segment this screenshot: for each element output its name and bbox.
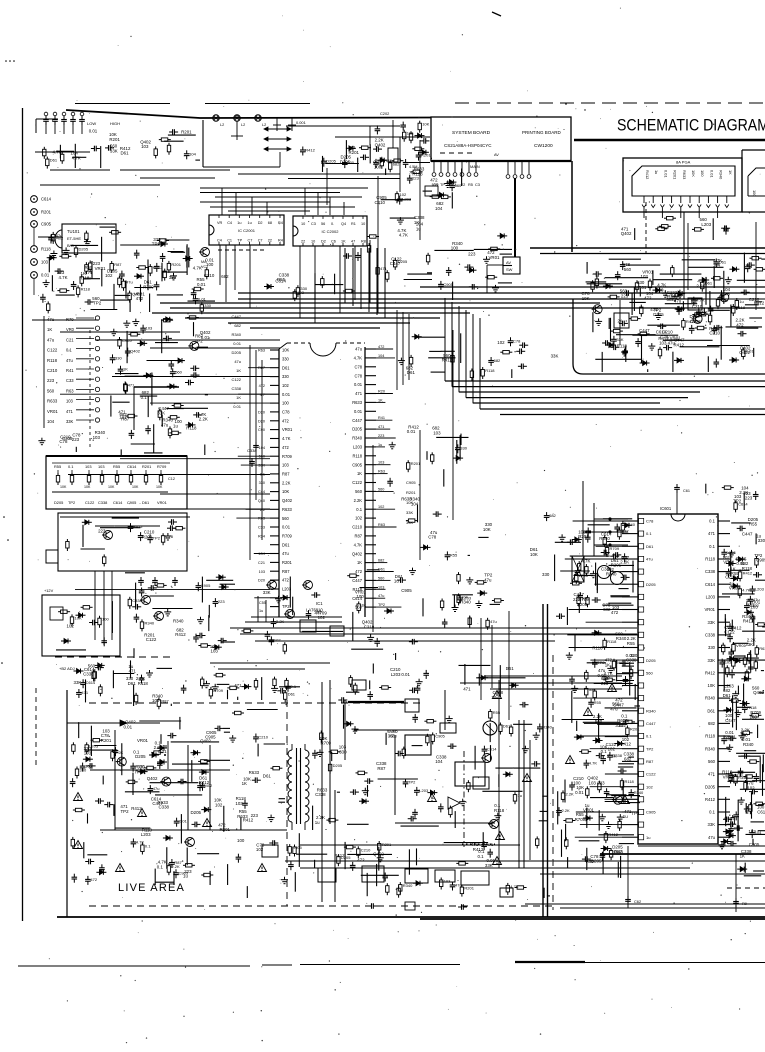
svg-text:330: 330 [204,303,211,308]
svg-text:C1: C1 [227,239,232,243]
svg-text:L203: L203 [353,445,363,450]
svg-text:VR01: VR01 [635,285,647,290]
svg-text:223: 223 [47,378,55,383]
svg-text:C21: C21 [258,561,265,565]
svg-text:TP2: TP2 [733,499,742,504]
svg-text:R55: R55 [450,552,458,557]
svg-text:560: 560 [378,576,384,580]
svg-text:2.2K: 2.2K [620,560,629,565]
svg-text:C78: C78 [282,410,290,415]
svg-text:R201: R201 [181,130,192,135]
svg-text:D61: D61 [263,773,272,778]
svg-text:4.7K: 4.7K [282,436,291,441]
svg-text:R4: R4 [278,221,283,225]
svg-text:472: 472 [282,578,290,583]
svg-text:102: 102 [282,383,290,388]
svg-text:R709: R709 [282,534,293,539]
svg-text:R340: R340 [625,522,635,527]
svg-text:104: 104 [189,151,196,156]
svg-text:4.7K: 4.7K [742,587,751,592]
svg-text:C78: C78 [101,733,110,738]
svg-text:560: 560 [708,759,716,764]
svg-text:100: 100 [573,781,581,786]
svg-text:C6: C6 [331,240,336,244]
svg-text:4.7K: 4.7K [399,233,408,238]
svg-text:22: 22 [268,239,272,243]
svg-text:47u: 47u [234,359,241,364]
svg-text:L2: L2 [262,123,266,127]
svg-text:C614: C614 [275,278,286,283]
svg-text:103: 103 [235,801,243,806]
svg-text:102: 102 [67,623,75,628]
svg-text:VR01: VR01 [723,560,735,565]
svg-text:C338: C338 [159,805,170,810]
svg-text:103: 103 [85,464,92,469]
svg-text:C614: C614 [127,464,137,469]
svg-text:C78: C78 [354,373,362,378]
svg-text:103: 103 [211,649,219,654]
svg-text:47: 47 [351,240,355,244]
svg-text:R63: R63 [378,523,385,527]
svg-text:10K: 10K [582,296,590,301]
svg-text:1K: 1K [47,327,52,332]
svg-text:R87: R87 [354,534,362,539]
svg-text:R87: R87 [646,759,654,764]
svg-text:10K: 10K [75,615,82,620]
svg-text:471: 471 [129,669,137,674]
svg-text:LOW: LOW [87,121,96,126]
svg-text:10: 10 [311,240,315,244]
svg-text:1u: 1u [315,820,320,825]
svg-text:R118: R118 [607,639,617,644]
svg-text:330: 330 [708,645,716,650]
svg-text:0.1: 0.1 [356,507,362,512]
svg-text:C905: C905 [205,735,216,740]
svg-text:2.2K: 2.2K [696,283,705,288]
svg-text:R55: R55 [113,464,120,469]
svg-text:10K: 10K [132,485,139,489]
svg-text:47u: 47u [47,337,55,342]
svg-text:D61: D61 [288,691,296,696]
svg-text:330: 330 [542,572,550,577]
svg-text:560: 560 [355,489,363,494]
svg-text:10K: 10K [708,683,716,688]
svg-text:R412: R412 [175,632,186,637]
svg-text:2.2K: 2.2K [354,498,363,503]
svg-text:R201: R201 [464,886,474,891]
svg-text:103: 103 [93,435,101,440]
svg-text:VR: VR [217,221,223,225]
svg-text:D205: D205 [191,810,202,815]
svg-text:R118: R118 [494,808,505,813]
svg-text:0.1: 0.1 [157,864,164,869]
svg-text:102: 102 [378,505,384,509]
svg-text:R87: R87 [377,766,386,771]
svg-text:R340: R340 [599,536,610,541]
svg-text:TP2: TP2 [408,780,416,785]
svg-text:472: 472 [357,858,365,863]
svg-text:33K: 33K [110,149,118,154]
svg-text:R340: R340 [606,572,617,577]
svg-text:10: 10 [361,222,365,226]
svg-text:103: 103 [407,131,414,136]
svg-text:103: 103 [314,609,322,614]
svg-text:C447: C447 [352,578,363,583]
svg-text:R63: R63 [258,517,265,521]
svg-text:47u: 47u [708,835,716,840]
svg-text:103: 103 [297,290,304,295]
svg-text:560: 560 [455,183,462,188]
svg-text:L203: L203 [141,832,151,837]
svg-text:D205: D205 [135,754,146,759]
svg-text:TP2: TP2 [153,535,161,540]
svg-text:0.01: 0.01 [401,672,410,677]
svg-text:Q402: Q402 [375,142,386,147]
svg-text:R340: R340 [705,746,716,751]
svg-text:C33: C33 [66,378,74,383]
svg-text:100: 100 [752,190,757,197]
svg-text:R87: R87 [258,366,265,370]
svg-text:D205: D205 [54,500,63,505]
svg-text:102: 102 [318,615,326,620]
svg-text:1K: 1K [378,398,383,402]
svg-text:C447: C447 [639,328,650,333]
svg-text:C122: C122 [85,500,94,505]
svg-text:LIVE AREA: LIVE AREA [118,882,185,894]
svg-text:560: 560 [47,388,55,393]
svg-text:471: 471 [708,772,716,777]
svg-text:R55: R55 [627,641,636,646]
svg-text:Q402: Q402 [130,349,141,354]
svg-text:223: 223 [72,437,80,442]
svg-text:R41: R41 [378,416,385,420]
svg-text:223: 223 [98,529,106,534]
svg-text:D61: D61 [282,542,290,547]
svg-text:SCHEMATIC DIAGRAM: SCHEMATIC DIAGRAM [617,116,765,135]
svg-text:223: 223 [84,275,91,280]
svg-text:C210: C210 [352,525,363,530]
svg-text:TU101: TU101 [67,229,80,234]
svg-text:C7: C7 [248,239,253,243]
svg-text:10K: 10K [483,527,491,532]
svg-text:C210: C210 [709,331,720,336]
svg-text:C614: C614 [41,197,52,202]
svg-text:1K: 1K [242,781,247,786]
svg-text:D61: D61 [121,151,130,156]
svg-text:1K: 1K [605,663,610,668]
svg-text:IC1: IC1 [316,601,323,606]
svg-text:VR01: VR01 [47,409,58,414]
svg-text:47u: 47u [484,577,492,582]
svg-text:VC2: VC2 [201,265,208,269]
svg-text:IC C2001: IC C2001 [238,228,256,233]
svg-text:R412: R412 [645,170,650,179]
svg-text:D205: D205 [591,859,602,864]
svg-text:330: 330 [282,374,290,379]
svg-text:C55: C55 [259,601,266,605]
svg-text:0.1: 0.1 [145,844,151,849]
svg-text:D61: D61 [407,370,416,375]
svg-text:104: 104 [622,719,630,724]
svg-text:R633: R633 [759,646,765,651]
svg-text:10K: 10K [282,489,290,494]
svg-text:330: 330 [460,445,467,450]
svg-text:R340: R340 [616,636,627,641]
svg-text:C447: C447 [613,702,624,707]
svg-text:C338: C338 [601,567,612,572]
svg-text:R4: R4 [278,239,283,243]
svg-text:0.01: 0.01 [233,404,242,409]
svg-text:C78: C78 [428,535,437,540]
svg-text:2.2K: 2.2K [276,619,285,624]
svg-text:10: 10 [301,222,305,226]
svg-text:330: 330 [115,355,122,360]
svg-text:100: 100 [374,165,382,170]
svg-text:C202: C202 [380,111,389,116]
svg-text:C338: C338 [315,792,326,797]
svg-text:103: 103 [378,461,384,465]
svg-text:0.01: 0.01 [407,429,416,434]
svg-text:0.1: 0.1 [478,854,485,859]
svg-text:C7: C7 [258,239,263,243]
svg-text:10K: 10K [108,485,115,489]
svg-text:C12: C12 [168,477,175,481]
svg-text:471: 471 [708,531,716,536]
svg-text:L203: L203 [701,222,711,227]
svg-text:D61: D61 [142,500,149,505]
svg-text:D61: D61 [646,544,654,549]
svg-text:47u: 47u [650,307,658,312]
svg-text:C78: C78 [513,338,521,343]
svg-text:100: 100 [740,732,748,737]
svg-text:C338: C338 [705,569,716,574]
svg-text:L203: L203 [706,595,716,600]
svg-text:C905: C905 [41,222,52,227]
svg-text:10K: 10K [84,485,91,489]
svg-text:1K: 1K [740,854,745,859]
svg-text:L2: L2 [241,123,245,127]
svg-text:SW: SW [506,267,513,272]
svg-text:0.1: 0.1 [646,734,652,739]
svg-text:47u: 47u [646,557,653,562]
svg-text:100: 100 [700,170,705,177]
svg-text:4.7K: 4.7K [589,761,598,766]
svg-text:C614: C614 [113,500,123,505]
svg-text:100: 100 [102,617,109,622]
svg-text:R87: R87 [174,860,182,865]
svg-text:R340: R340 [719,170,724,180]
svg-text:D205: D205 [705,784,716,789]
svg-text:R118: R118 [736,305,746,310]
svg-text:560: 560 [282,516,290,521]
svg-text:R709: R709 [610,546,620,551]
svg-text:L203: L203 [462,596,472,601]
svg-text:C447: C447 [742,532,753,537]
svg-text:R412: R412 [686,319,696,324]
svg-text:C210: C210 [361,847,371,852]
svg-text:0.01: 0.01 [354,382,363,387]
svg-text:R412: R412 [199,780,210,785]
svg-text:103: 103 [66,399,74,404]
svg-text:1u: 1u [237,221,241,225]
svg-text:10K: 10K [530,552,538,557]
svg-text:4.5M: 4.5M [409,165,417,169]
svg-text:R412: R412 [305,148,315,153]
svg-text:C210: C210 [258,735,268,740]
svg-text:33K: 33K [263,590,271,595]
svg-text:100: 100 [237,838,245,843]
svg-text:33K: 33K [708,620,716,625]
svg-text:33K: 33K [406,510,413,515]
svg-text:47u: 47u [355,347,362,352]
svg-text:1u: 1u [518,793,522,798]
svg-text:R55: R55 [594,700,602,705]
svg-text:D20: D20 [258,410,265,414]
svg-text:471: 471 [66,409,74,414]
svg-text:102: 102 [256,847,264,852]
svg-text:R118: R118 [705,734,715,739]
svg-text:C614: C614 [86,680,96,685]
svg-text:682: 682 [378,559,384,563]
svg-text:R340: R340 [173,619,184,624]
svg-text:103: 103 [98,464,105,469]
svg-text:R340: R340 [403,883,413,888]
svg-text:560: 560 [624,267,632,272]
svg-text:C338: C338 [626,658,637,663]
svg-text:R340: R340 [231,332,241,337]
svg-text:R412: R412 [743,570,753,575]
svg-text:C78: C78 [646,519,654,524]
svg-text:D61: D61 [282,365,290,370]
svg-text:330: 330 [758,538,765,543]
svg-text:R633: R633 [282,507,293,512]
svg-text:C338: C338 [83,672,94,677]
svg-text:R118: R118 [186,426,197,431]
svg-text:33K: 33K [74,680,82,685]
svg-text:+B2 ADJ: +B2 ADJ [59,666,75,671]
svg-text:100: 100 [282,401,290,406]
svg-text:103: 103 [41,260,49,265]
svg-text:R8: R8 [361,240,366,244]
svg-text:R87: R87 [282,569,290,574]
svg-text:R41: R41 [66,368,74,373]
svg-text:Q402: Q402 [352,551,363,556]
svg-text:R633: R633 [47,399,58,404]
svg-text:R412: R412 [705,670,716,675]
svg-text:C122: C122 [231,377,241,382]
svg-text:TP2: TP2 [93,301,102,306]
svg-text:2.2K: 2.2K [566,791,575,796]
svg-text:TP2: TP2 [646,746,654,751]
svg-text:Q40: Q40 [258,499,265,503]
svg-text:R55: R55 [54,464,61,469]
svg-text:560: 560 [378,487,384,491]
svg-text:R201: R201 [630,727,640,732]
svg-text:C905: C905 [127,500,136,505]
svg-text:SYSTEM BOARD: SYSTEM BOARD [452,130,491,136]
svg-text:1K: 1K [728,170,733,175]
svg-text:Q402: Q402 [621,231,632,236]
svg-text:0.01: 0.01 [736,561,745,566]
svg-text:560: 560 [175,369,182,374]
svg-text:R412: R412 [743,619,754,624]
svg-text:223: 223 [468,252,476,257]
svg-text:C447: C447 [231,314,241,319]
svg-text:0.001: 0.001 [296,120,306,125]
svg-text:R118: R118 [353,453,363,458]
svg-text:R34: R34 [258,534,265,538]
svg-text:VR0: VR0 [66,327,75,332]
svg-text:D61: D61 [128,681,137,686]
svg-text:330: 330 [656,287,664,292]
svg-text:103: 103 [141,144,149,149]
svg-text:R20: R20 [378,390,385,394]
svg-text:472: 472 [734,826,741,831]
svg-text:682: 682 [603,607,611,612]
svg-text:10K: 10K [422,122,429,127]
svg-text:D205: D205 [352,427,363,432]
svg-text:330: 330 [339,749,347,754]
svg-text:R633: R633 [237,814,248,819]
svg-text:0.1: 0.1 [646,531,652,536]
svg-text:C210: C210 [204,273,215,278]
svg-text:682: 682 [393,161,400,166]
svg-text:0.1: 0.1 [709,810,715,815]
svg-text:330: 330 [80,768,87,773]
svg-text:1u: 1u [654,170,659,174]
svg-text:R118: R118 [41,247,51,252]
svg-text:D205: D205 [333,763,343,768]
svg-text:47u: 47u [378,594,384,598]
svg-text:103: 103 [146,326,153,331]
svg-text:103: 103 [259,570,265,574]
svg-text:R709: R709 [213,688,223,693]
svg-text:D61: D61 [723,693,732,698]
svg-text:C905: C905 [401,588,412,593]
svg-text:0.01: 0.01 [282,392,291,397]
svg-text:R118: R118 [705,557,715,562]
svg-text:472: 472 [282,445,290,450]
svg-text:56: 56 [321,222,325,226]
svg-text:C44: C44 [258,490,265,494]
svg-text:4.7K: 4.7K [354,356,363,361]
svg-text:R412: R412 [705,797,716,802]
svg-text:47u: 47u [153,786,160,791]
svg-text:R201: R201 [41,210,52,215]
svg-text:R118: R118 [625,779,635,784]
svg-text:47u: 47u [66,358,73,363]
svg-text:C4: C4 [217,239,222,243]
svg-text:MA: MA [201,260,207,264]
svg-text:33K: 33K [66,419,74,424]
svg-text:MAIN: MAIN [470,164,480,169]
svg-text:R201: R201 [282,560,293,565]
svg-text:472: 472 [644,296,652,301]
svg-text:IC C2002: IC C2002 [322,229,340,234]
svg-text:0.1: 0.1 [709,519,715,524]
svg-text:D20: D20 [258,419,265,423]
svg-text:TP2: TP2 [68,500,75,505]
svg-text:1u: 1u [259,609,263,613]
svg-text:102: 102 [400,192,407,197]
svg-text:R340: R340 [145,620,155,625]
svg-text:4.7K: 4.7K [59,275,68,280]
svg-text:VR01: VR01 [583,808,595,813]
svg-text:TP2: TP2 [378,603,385,607]
svg-text:682: 682 [549,513,556,518]
svg-text:2.2K: 2.2K [562,808,571,813]
svg-text:0.1: 0.1 [709,544,715,549]
